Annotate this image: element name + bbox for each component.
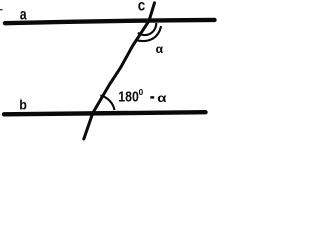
angle arc outer (top intersection) [135,26,161,41]
svg-text:c: c [138,0,145,15]
svg-text:α: α [157,91,167,104]
edge tick [0,9,3,10]
angle arc inner (top intersection) [138,23,156,35]
transversal c (wire) [84,3,155,139]
svg-text:180: 180 [118,88,139,104]
svg-text:b: b [19,97,27,113]
line b [4,112,206,114]
svg-text:α: α [156,42,164,56]
line a [5,20,215,23]
svg-text:a: a [20,6,27,24]
svg-text:0: 0 [139,88,144,97]
angle arc (bottom intersection) [100,95,114,110]
label minus sign [150,96,154,98]
